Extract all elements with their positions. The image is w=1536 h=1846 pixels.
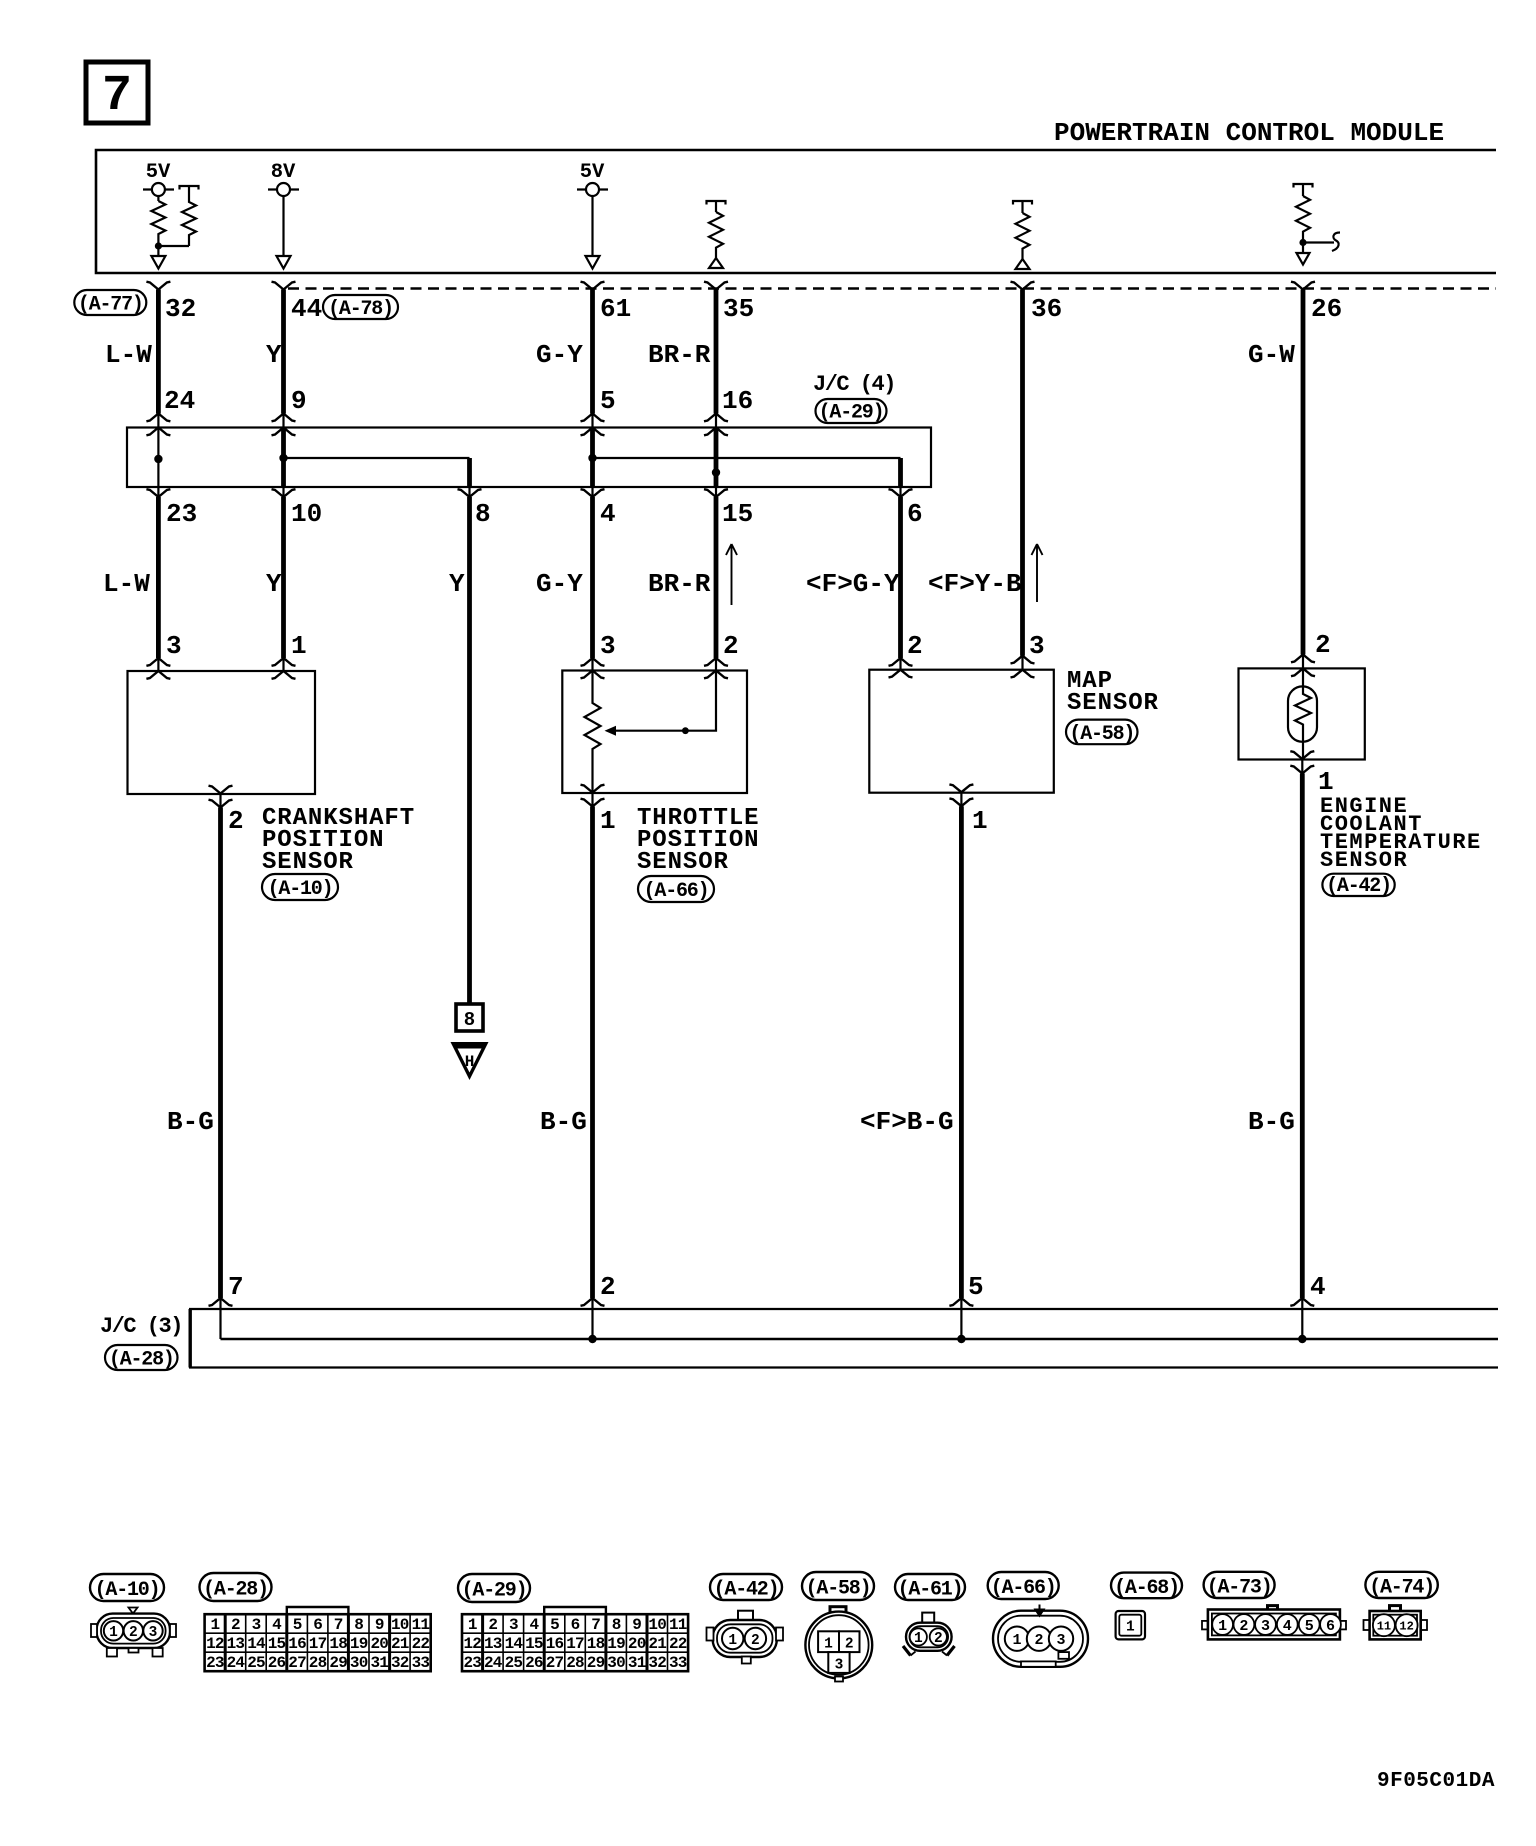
pin numbers below J/C(4) — [166, 499, 923, 529]
svg-text:10: 10 — [391, 1616, 409, 1634]
svg-text:21: 21 — [648, 1635, 666, 1653]
svg-text:33: 33 — [412, 1654, 430, 1672]
svg-text:2: 2 — [488, 1616, 497, 1634]
label CRANKSHAFT POSITION SENSOR — [262, 805, 415, 876]
svg-text:(A-74): (A-74) — [1369, 1576, 1434, 1599]
svg-text:5: 5 — [1305, 1618, 1314, 1635]
svg-text:2: 2 — [1315, 630, 1331, 660]
svg-text:2: 2 — [1034, 1632, 1043, 1649]
TPS wiper line from pin 2 — [615, 671, 716, 731]
svg-text:2: 2 — [228, 806, 244, 836]
svg-text:4: 4 — [529, 1616, 539, 1634]
throttle position sensor box — [562, 671, 747, 794]
svg-text:BR-R: BR-R — [648, 340, 711, 370]
connector A-58 drawing (round 3-pin) — [805, 1607, 872, 1682]
junction dot TPS wire — [588, 1335, 596, 1343]
svg-text:(A-68): (A-68) — [1114, 1577, 1179, 1600]
connector label A-78 — [323, 295, 398, 321]
svg-text:5: 5 — [293, 1616, 302, 1634]
svg-text:1: 1 — [972, 806, 988, 836]
svg-text:L-W: L-W — [103, 569, 150, 599]
wire 4/G-Y J/C(4) to TPS — [590, 497, 595, 658]
svg-text:24: 24 — [164, 386, 195, 416]
svg-text:23: 23 — [166, 499, 197, 529]
svg-text:26: 26 — [268, 1654, 286, 1672]
connector label A-58 (MAP) — [1066, 720, 1138, 746]
svg-text:9F05C01DA: 9F05C01DA — [1377, 1770, 1495, 1793]
svg-text:2: 2 — [723, 631, 739, 661]
svg-text:17: 17 — [309, 1635, 327, 1653]
svg-text:6: 6 — [571, 1616, 580, 1634]
svg-text:9: 9 — [291, 386, 307, 416]
output arrow to pin 32 — [157, 246, 159, 256]
svg-text:(A-29): (A-29) — [462, 1580, 527, 1603]
svg-text:POWERTRAIN CONTROL MODULE: POWERTRAIN CONTROL MODULE — [1054, 118, 1444, 148]
svg-text:4: 4 — [600, 499, 616, 529]
pin numbers entering J/C(3) — [228, 1272, 1326, 1302]
svg-text:28: 28 — [566, 1654, 584, 1672]
wire 6/(F)G-Y J/C(4) to MAP — [898, 497, 903, 658]
svg-text:27: 27 — [546, 1654, 564, 1672]
svg-text:1: 1 — [109, 1625, 118, 1641]
pin numbers entering J/C(4) — [164, 386, 753, 416]
svg-text:J/C (4): J/C (4) — [813, 372, 895, 397]
svg-text:1: 1 — [728, 1633, 737, 1649]
wire joining resistors — [158, 245, 189, 247]
svg-text:12: 12 — [1399, 1620, 1413, 1634]
svg-text:7: 7 — [591, 1616, 600, 1634]
J/C(4) internal bus to pin 8 — [284, 457, 470, 459]
svg-text:24: 24 — [484, 1654, 503, 1672]
PCM pin terminals (chevrons) — [146, 282, 170, 290]
wire color labels (middle) — [103, 569, 1022, 599]
label ENGINE COOLANT TEMPERATURE SENSOR — [1320, 794, 1482, 873]
svg-text:3: 3 — [1029, 631, 1045, 661]
svg-text:2: 2 — [845, 1637, 854, 1653]
svg-text:29: 29 — [329, 1654, 347, 1672]
svg-text:27: 27 — [288, 1654, 306, 1672]
svg-text:Y: Y — [266, 569, 282, 599]
TPS wiper arrowhead — [605, 726, 617, 736]
connector A-28 pin grid — [205, 1607, 431, 1672]
label THROTTLE POSITION SENSOR — [637, 805, 759, 876]
direction arrow beside BR-R wire — [726, 544, 737, 605]
J/C(3) entry terminals — [209, 1298, 233, 1306]
svg-text:8: 8 — [354, 1616, 363, 1634]
svg-text:16: 16 — [722, 386, 753, 416]
junction dot wire 16/15 — [712, 468, 720, 476]
svg-text:(A-10): (A-10) — [268, 878, 333, 901]
wire 35/BR-R from PCM to J/C(4) — [714, 290, 719, 414]
wire 26/G-W from PCM to ECT sensor — [1301, 290, 1306, 655]
svg-text:31: 31 — [628, 1654, 646, 1672]
wire 1/B-G ECT to J/C(3) — [1300, 774, 1305, 1299]
svg-text:8: 8 — [612, 1616, 621, 1634]
svg-text:26: 26 — [1311, 294, 1342, 324]
svg-text:15: 15 — [268, 1635, 286, 1653]
5V supply (pin 32 pull-up network) — [143, 161, 174, 201]
svg-text:23: 23 — [206, 1654, 224, 1672]
svg-text:6: 6 — [907, 499, 923, 529]
svg-text:16: 16 — [546, 1635, 564, 1653]
svg-text:35: 35 — [723, 294, 754, 324]
J/C(4) entry terminals — [146, 414, 170, 422]
svg-text:22: 22 — [412, 1635, 430, 1653]
resistor (right, with pigtail) — [182, 187, 196, 246]
svg-text:SENSOR: SENSOR — [262, 849, 354, 876]
svg-text:1: 1 — [291, 631, 307, 661]
svg-text:9: 9 — [375, 1616, 384, 1634]
svg-text:1: 1 — [600, 806, 616, 836]
8V supply (pin 44) — [268, 161, 299, 269]
svg-text:1: 1 — [468, 1616, 477, 1634]
pull-up resistor with branch (pin 26) — [1294, 184, 1341, 265]
svg-text:11: 11 — [669, 1616, 687, 1634]
svg-text:5: 5 — [550, 1616, 559, 1634]
connector label A-42 (bottom row) — [710, 1574, 782, 1602]
svg-text:8V: 8V — [271, 161, 296, 184]
ECT thermistor capsule — [1288, 686, 1317, 741]
svg-text:2: 2 — [907, 631, 923, 661]
junction dot wire 9/10 — [279, 454, 287, 462]
connector label A-29 (bottom row) — [458, 1574, 530, 1603]
pin numbers at sensor outputs — [228, 767, 1334, 836]
sensor output terminals — [219, 794, 221, 808]
resistor (left pull-up) — [151, 201, 165, 246]
pin numbers at PCM — [165, 294, 1342, 324]
wire 23/L-W J/C(4) to CPS — [156, 497, 161, 658]
junction dot — [155, 242, 162, 249]
wire 8/Y J/C(4) to ground terminal — [467, 497, 472, 1004]
svg-text:(A-28): (A-28) — [203, 1579, 268, 1602]
connector label A-29 (junction) — [816, 399, 887, 425]
svg-text:3: 3 — [835, 1657, 844, 1673]
svg-text:SENSOR: SENSOR — [1067, 690, 1159, 717]
wire 15/BR-R J/C(4) to TPS — [714, 497, 719, 658]
svg-text:32: 32 — [391, 1654, 409, 1672]
svg-text:2: 2 — [934, 1631, 943, 1647]
svg-text:26: 26 — [525, 1654, 543, 1672]
connector label A-66 (TPS) — [638, 876, 714, 903]
connector label A-73 (bottom row) — [1204, 1572, 1275, 1600]
connector label A-68 (bottom row) — [1111, 1573, 1182, 1600]
pull-up resistor (pin 36) — [1013, 201, 1032, 269]
svg-text:12: 12 — [463, 1635, 481, 1653]
svg-text:9: 9 — [632, 1616, 641, 1634]
svg-text:14: 14 — [247, 1635, 266, 1653]
svg-text:30: 30 — [607, 1654, 625, 1672]
svg-text:33: 33 — [669, 1654, 687, 1672]
svg-text:3: 3 — [166, 631, 182, 661]
svg-text:7: 7 — [102, 68, 132, 125]
svg-text:13: 13 — [227, 1635, 245, 1653]
TPS potentiometer resistor — [585, 671, 601, 794]
ground terminal box 8 — [456, 1004, 483, 1031]
connector label A-74 (bottom row) — [1365, 1572, 1437, 1600]
MAP sensor box — [869, 670, 1054, 793]
svg-text:3: 3 — [509, 1616, 518, 1634]
svg-text:3: 3 — [149, 1625, 158, 1641]
svg-text:3: 3 — [252, 1616, 261, 1634]
svg-text:1: 1 — [1318, 767, 1334, 797]
svg-text:SENSOR: SENSOR — [637, 849, 729, 876]
svg-text:15: 15 — [525, 1635, 543, 1653]
svg-text:G-Y: G-Y — [536, 340, 583, 370]
wire 1/B-G TPS to J/C(3) — [590, 807, 595, 1299]
connector label A-28 (junction) — [105, 1345, 178, 1372]
connector A-73 drawing (6-pin) — [1202, 1606, 1346, 1640]
connector A-74 drawing (2-pin) — [1364, 1606, 1428, 1640]
wire color labels (lower) — [167, 1107, 1295, 1137]
svg-text:5V: 5V — [146, 161, 171, 184]
svg-text:10: 10 — [291, 499, 322, 529]
svg-text:7: 7 — [228, 1272, 244, 1302]
svg-text:<F>Y-B: <F>Y-B — [928, 569, 1022, 599]
svg-text:17: 17 — [566, 1635, 584, 1653]
connector label A-66 (bottom row) — [988, 1572, 1059, 1600]
wire 1/(F)B-G MAP to J/C(3) — [959, 806, 964, 1298]
svg-text:(A-73): (A-73) — [1207, 1576, 1272, 1599]
PCM box (powertrain control module outline) — [96, 150, 1496, 273]
svg-text:31: 31 — [370, 1654, 388, 1672]
svg-text:30: 30 — [350, 1654, 368, 1672]
svg-text:1: 1 — [1218, 1618, 1227, 1635]
connector A-68 drawing (1-pin) — [1116, 1611, 1145, 1639]
connector label A-28 (bottom row) — [200, 1573, 272, 1602]
svg-text:BR-R: BR-R — [648, 569, 711, 599]
svg-text:5V: 5V — [580, 161, 605, 184]
svg-text:(A-66): (A-66) — [644, 880, 709, 903]
junction dot on wiper line — [682, 727, 689, 734]
pull-up resistor (pin 35) — [707, 201, 726, 268]
connector A-10 drawing (3-pin) — [91, 1608, 176, 1657]
svg-text:<F>B-G: <F>B-G — [860, 1107, 954, 1137]
svg-text:(A-28): (A-28) — [109, 1349, 174, 1372]
junction dot ECT wire — [1298, 1335, 1306, 1343]
svg-text:1: 1 — [1126, 1620, 1135, 1636]
svg-text:(A-58): (A-58) — [806, 1578, 871, 1601]
svg-text:G-Y: G-Y — [536, 569, 583, 599]
svg-text:4: 4 — [272, 1616, 282, 1634]
svg-text:25: 25 — [505, 1654, 523, 1672]
wire 10/Y J/C(4) to CPS — [281, 497, 286, 658]
svg-text:1: 1 — [824, 1637, 833, 1653]
engine coolant temperature sensor box — [1239, 668, 1365, 759]
connector label A-10 (bottom row) — [90, 1574, 164, 1602]
svg-text:24: 24 — [227, 1654, 246, 1672]
svg-text:(A-78): (A-78) — [328, 298, 393, 321]
svg-text:44: 44 — [291, 294, 322, 324]
wire 2/B-G CPS to J/C(3) — [218, 808, 223, 1299]
svg-text:18: 18 — [587, 1635, 605, 1653]
svg-text:Y: Y — [266, 340, 282, 370]
svg-text:3: 3 — [1056, 1632, 1065, 1649]
svg-text:11: 11 — [1377, 1620, 1391, 1634]
wire color labels (upper) — [105, 340, 1295, 370]
svg-text:13: 13 — [484, 1635, 502, 1653]
connector A-66 drawing (3-pin oval) — [993, 1605, 1088, 1667]
5V supply (pin 61) — [577, 161, 608, 269]
svg-text:6: 6 — [1326, 1618, 1335, 1635]
svg-text:20: 20 — [370, 1635, 388, 1653]
svg-text:4: 4 — [1283, 1618, 1292, 1635]
svg-text:10: 10 — [648, 1616, 666, 1634]
svg-text:G-W: G-W — [1248, 340, 1295, 370]
crankshaft position sensor box — [128, 671, 316, 794]
svg-text:11: 11 — [412, 1616, 430, 1634]
svg-text:32: 32 — [648, 1654, 666, 1672]
svg-text:1: 1 — [914, 1631, 923, 1647]
svg-text:25: 25 — [247, 1654, 265, 1672]
connector label A-58 (bottom row) — [802, 1572, 874, 1601]
svg-text:(A-29): (A-29) — [819, 402, 884, 425]
svg-text:5: 5 — [600, 386, 616, 416]
connector A-29 pin grid — [462, 1607, 688, 1672]
ground symbol H (triangle) — [451, 1042, 489, 1080]
wire 61/G-Y from PCM to J/C(4) — [590, 290, 595, 414]
svg-text:21: 21 — [391, 1635, 409, 1653]
svg-text:J/C (3): J/C (3) — [100, 1314, 182, 1339]
pin numbers at sensor inputs — [166, 630, 1331, 661]
svg-text:23: 23 — [463, 1654, 481, 1672]
svg-text:1: 1 — [1012, 1632, 1021, 1649]
svg-text:B-G: B-G — [167, 1107, 214, 1137]
svg-text:2: 2 — [751, 1633, 760, 1649]
J/C(4) internal bus to pin 6 — [593, 457, 901, 459]
svg-text:14: 14 — [505, 1635, 524, 1653]
svg-text:3: 3 — [600, 631, 616, 661]
svg-text:L-W: L-W — [105, 340, 152, 370]
wire 44/Y from PCM to J/C(4) — [281, 290, 286, 414]
svg-text:61: 61 — [600, 294, 631, 324]
svg-text:22: 22 — [669, 1635, 687, 1653]
svg-text:8: 8 — [475, 499, 491, 529]
svg-text:1: 1 — [210, 1616, 219, 1634]
svg-text:(A-66): (A-66) — [991, 1577, 1056, 1600]
svg-text:16: 16 — [288, 1635, 306, 1653]
svg-text:(A-77): (A-77) — [78, 294, 143, 317]
page number 7 box — [86, 62, 148, 125]
junction dot wire 24/23 — [154, 455, 162, 463]
svg-text:12: 12 — [206, 1635, 224, 1653]
svg-text:15: 15 — [722, 499, 753, 529]
connector label A-42 (ECT) — [1322, 874, 1394, 898]
svg-text:20: 20 — [628, 1635, 646, 1653]
svg-text:19: 19 — [350, 1635, 368, 1653]
svg-text:SENSOR: SENSOR — [1320, 848, 1408, 873]
label MAP SENSOR — [1067, 668, 1159, 717]
connector A-42 drawing (2-pin) — [707, 1611, 784, 1664]
connector label A-10 (CPS) — [262, 874, 338, 901]
svg-text:2: 2 — [129, 1625, 138, 1641]
svg-text:4: 4 — [1310, 1272, 1326, 1302]
J/C(4) exit terminals — [157, 487, 159, 497]
J/C(3) internal bus — [221, 1338, 1499, 1340]
svg-text:6: 6 — [313, 1616, 322, 1634]
junction dot MAP wire — [957, 1335, 965, 1343]
svg-text:3: 3 — [1261, 1618, 1270, 1635]
svg-text:(A-10): (A-10) — [95, 1579, 160, 1602]
svg-text:29: 29 — [587, 1654, 605, 1672]
svg-text:32: 32 — [165, 294, 196, 324]
svg-text:B-G: B-G — [540, 1107, 587, 1137]
svg-text:18: 18 — [329, 1635, 347, 1653]
junction connector J/C(4) A-29 box — [127, 428, 931, 488]
svg-text:19: 19 — [607, 1635, 625, 1653]
svg-text:H: H — [465, 1053, 475, 1071]
junction connector J/C(3) A-28 box — [189, 1309, 1498, 1368]
svg-text:8: 8 — [464, 1009, 475, 1031]
direction arrow beside (F)Y-B wire — [1032, 544, 1043, 602]
svg-text:7: 7 — [334, 1616, 343, 1634]
wire 32/L-W from PCM to J/C(4) — [156, 290, 161, 414]
connector label A-61 (bottom row) — [895, 1574, 965, 1602]
connector label A-77 — [74, 290, 146, 317]
wire 36/(F)Y-B from PCM to MAP sensor — [1020, 290, 1025, 656]
svg-text:Y: Y — [449, 569, 465, 599]
svg-text:2: 2 — [231, 1616, 240, 1634]
svg-text:2: 2 — [600, 1272, 616, 1302]
svg-text:2: 2 — [1239, 1618, 1248, 1635]
connector A-61 drawing (2-pin) — [903, 1613, 955, 1656]
svg-text:(A-42): (A-42) — [714, 1579, 779, 1602]
svg-text:(A-58): (A-58) — [1069, 723, 1134, 746]
junction dot wire 5/4 — [588, 454, 596, 462]
ECT thermistor element — [1295, 668, 1311, 759]
svg-text:28: 28 — [309, 1654, 327, 1672]
svg-text:(A-61): (A-61) — [898, 1579, 963, 1602]
svg-text:B-G: B-G — [1248, 1107, 1295, 1137]
svg-text:36: 36 — [1031, 294, 1062, 324]
svg-text:(A-42): (A-42) — [1326, 875, 1391, 898]
svg-text:<F>G-Y: <F>G-Y — [806, 569, 900, 599]
sensor entry terminals — [146, 658, 170, 666]
dashed line (PCM connector boundary) — [288, 287, 1496, 289]
svg-text:5: 5 — [968, 1272, 984, 1302]
